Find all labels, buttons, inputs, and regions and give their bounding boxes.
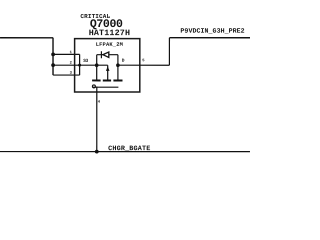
svg-text:LFPAK_2M: LFPAK_2M (96, 42, 123, 48)
wire: gate drop to bottom bus (96, 86, 98, 151)
svg-text:5: 5 (142, 59, 145, 63)
wire: top-right net to right edge (169, 37, 250, 39)
svg-text:S3: S3 (83, 58, 88, 64)
wire: diode right drop / drain drop (117, 55, 119, 80)
wire: mosfet body/source middle drop (107, 65, 109, 80)
mosfet gate bar (93, 86, 119, 88)
node junction dot pin1 (51, 52, 55, 56)
svg-text:4: 4 (98, 101, 101, 105)
wire: source pin 1 stub (53, 53, 79, 55)
body diode cathode bar (100, 51, 102, 58)
wire: pin connector vertical inside box (79, 54, 81, 75)
transistor Q7000 body box (75, 39, 140, 92)
mosfet channel bar middle (103, 79, 111, 81)
gate terminal circle (92, 85, 95, 88)
svg-text:D: D (122, 58, 125, 64)
node junction dot connector-rail (78, 64, 81, 67)
node junction dot pin2 (51, 63, 55, 67)
svg-text:P9VDCIN_G3H_PRE2: P9VDCIN_G3H_PRE2 (180, 28, 244, 35)
mosfet channel bar left (92, 79, 101, 81)
wire: corner up to output net (168, 38, 170, 65)
node junction dot gate on bus (95, 150, 99, 154)
wire: bottom CHGR_BGATE bus (0, 151, 250, 153)
node junction dot diode-right on drain line (116, 63, 120, 67)
wire: left vertical bus (52, 38, 54, 75)
wire: top-left net entering from left edge (0, 37, 53, 39)
wire: diode left drop to drain bar (96, 55, 98, 80)
body diode top line (97, 54, 118, 56)
mosfet channel bar right (113, 79, 122, 81)
node junction dot diode-left on rail (95, 63, 99, 67)
body diode triangle (103, 52, 109, 58)
svg-text:HAT1127H: HAT1127H (89, 28, 130, 38)
mosfet source arrow (points up) (106, 66, 110, 71)
wire: source rail left segment (53, 64, 108, 66)
wire: source pin 3 stub (53, 74, 80, 76)
wire: drain rail right segment to pin stub (118, 64, 169, 66)
mark after CRITICAL (109, 16, 110, 17)
